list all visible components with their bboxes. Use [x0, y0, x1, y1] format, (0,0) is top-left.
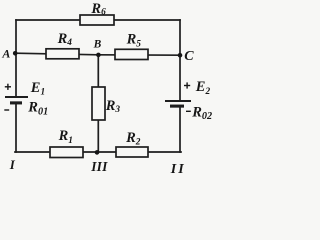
wire left vertical lower: [15, 105, 17, 153]
svg-text:R3: R3: [105, 98, 121, 115]
svg-text:C: C: [184, 49, 194, 64]
svg-text:B: B: [93, 39, 102, 51]
svg-text:E2: E2: [195, 79, 211, 97]
battery E1: [5, 97, 28, 103]
wire middle row A-B-C: [16, 53, 181, 55]
svg-text:I: I: [9, 157, 16, 172]
svg-text:R02: R02: [191, 104, 212, 121]
resistor R3: [92, 87, 105, 120]
battery E2: [165, 101, 191, 106]
label minus E2: [186, 110, 191, 112]
wire bottom: [15, 151, 181, 153]
label plus E1: [5, 84, 11, 90]
svg-text:R1: R1: [58, 128, 73, 146]
svg-text:II: II: [170, 162, 186, 173]
resistor R5: [115, 49, 148, 59]
svg-text:R6: R6: [90, 1, 106, 18]
wire right vertical lower: [179, 108, 181, 152]
svg-text:R5: R5: [126, 31, 142, 49]
node C: [178, 53, 183, 58]
svg-text:E1: E1: [30, 80, 45, 98]
node junction bottom: [95, 150, 100, 155]
svg-text:R01: R01: [27, 99, 48, 117]
resistor R4: [46, 49, 79, 59]
svg-text:A: A: [1, 46, 10, 60]
svg-text:R4: R4: [57, 31, 73, 48]
wire middle vertical B to bottom: [97, 55, 99, 152]
svg-text:III: III: [90, 159, 108, 173]
node B: [96, 53, 101, 58]
label plus E2: [184, 82, 190, 88]
label minus E1: [4, 109, 9, 111]
node A: [13, 51, 18, 56]
resistor R6: [80, 15, 114, 25]
wire right vertical upper: [179, 20, 181, 101]
wire top loop: [16, 19, 180, 21]
resistor R2: [116, 147, 148, 157]
svg-text:R2: R2: [125, 130, 141, 148]
wire left vertical upper: [15, 20, 17, 97]
resistor R1: [50, 147, 83, 158]
